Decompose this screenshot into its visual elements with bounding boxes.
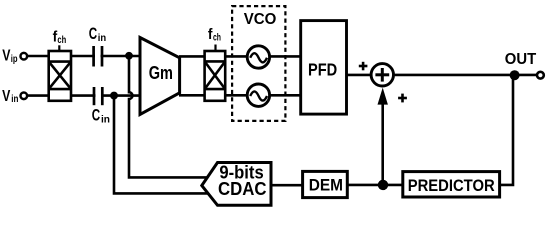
node A: Cin top output junction (125, 52, 133, 60)
svg-text:DEM: DEM (309, 177, 343, 195)
svg-text:Gm: Gm (149, 62, 173, 83)
label Vip (2, 48, 17, 65)
wire chopper1 to Cin top (70, 55, 95, 58)
label Cin top (89, 25, 106, 44)
svg-text:C: C (92, 107, 100, 125)
wire Cin top to Gm input (101, 55, 143, 58)
svg-text:ch: ch (57, 35, 66, 46)
oscillator OSC2 (247, 84, 269, 106)
wire chopper2 to VCO1 (225, 55, 248, 58)
svg-text:ip: ip (11, 53, 18, 65)
wire Gm to chopper2 top (179, 55, 206, 58)
fch clock tick CH1 (58, 45, 60, 50)
terminal Vip (21, 53, 28, 60)
svg-text:PFD: PFD (308, 60, 337, 80)
label fch of chopper CH2 (208, 27, 221, 44)
svg-text:f: f (208, 27, 213, 43)
PFD block (301, 21, 347, 115)
wire chopper2 to VCO2 (225, 94, 248, 97)
wire feedback bottom: Cin-bottom node down to CDAC lower input (114, 97, 208, 193)
node B: Cin bottom output junction (110, 92, 118, 100)
fch clock tick CH2 (214, 45, 216, 51)
svg-text:OUT: OUT (505, 51, 537, 68)
wire Gm to chopper2 bottom (179, 94, 206, 97)
transconductor Gm (140, 38, 180, 115)
plus sign at feedback input of summer (398, 94, 407, 103)
svg-text:in: in (101, 114, 110, 126)
wire PFD to summer (346, 74, 373, 77)
chopper CH1 (49, 51, 71, 101)
svg-text:PREDICTOR: PREDICTOR (408, 177, 495, 195)
node OUT junction (510, 70, 520, 80)
oscillator OSC1 (247, 46, 269, 68)
summer U1 (371, 64, 393, 86)
label Cin bottom (92, 107, 110, 126)
label fch of chopper CH1 (53, 29, 67, 46)
wire Vin to chopper1 (27, 94, 50, 97)
svg-text:in: in (11, 93, 18, 105)
svg-text:VCO: VCO (244, 11, 277, 28)
PREDICTOR block (403, 172, 500, 197)
wire Cin bottom to Gm input (101, 94, 142, 97)
capacitor Cin bottom (94, 87, 102, 105)
wire VCO1 to PFD (269, 55, 302, 58)
label Vin (2, 88, 18, 105)
svg-text:C: C (89, 25, 97, 43)
terminal Vin (21, 93, 28, 100)
wire OUT node down to predictor (500, 75, 513, 185)
svg-text:V: V (2, 88, 10, 105)
plus sign at PFD input of summer (359, 62, 368, 71)
wire predictor to DEM (347, 184, 404, 187)
CDAC pentagon block (202, 163, 271, 206)
svg-text:CDAC: CDAC (218, 178, 267, 199)
chopper CH2 (205, 51, 226, 101)
svg-text:ch: ch (213, 33, 221, 44)
svg-text:in: in (98, 32, 106, 44)
terminal OUT (537, 72, 544, 79)
wire feedback top: Cin-top node down with hop over, to CDAC upper input (129, 57, 207, 177)
svg-text:V: V (2, 48, 10, 65)
node C: DEM-predictor junction (378, 180, 388, 190)
wire CDAC to DEM (271, 184, 304, 187)
wire Vip to chopper1 (27, 55, 50, 58)
arrowhead into summer (378, 88, 388, 105)
capacitor Cin top (94, 46, 102, 67)
wire node B up to summer (arrow stem) (381, 102, 384, 185)
wire chopper1 to Cin bottom (70, 94, 96, 97)
wire summer to OUT (392, 74, 538, 77)
DEM block (303, 171, 348, 197)
VCO dashed box (232, 6, 285, 121)
wire VCO2 to PFD (269, 94, 302, 97)
